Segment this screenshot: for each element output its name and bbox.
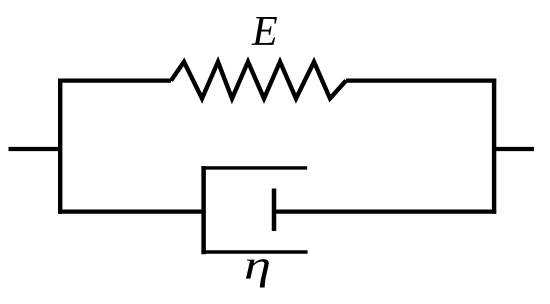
wire bottom-left <box>58 210 206 214</box>
spring E (zigzag) <box>171 62 346 99</box>
dashpot cylinder left wall <box>201 166 206 254</box>
dashpot cylinder bottom plate <box>202 250 308 253</box>
left terminal lead <box>9 147 61 151</box>
dashpot piston <box>272 189 277 232</box>
node right (vertical bus) <box>492 79 496 214</box>
wire top-left <box>58 78 171 82</box>
node left (vertical bus) <box>58 79 62 214</box>
right terminal lead <box>494 147 534 151</box>
svg-text:E: E <box>251 9 278 55</box>
dashpot piston rod / wire bottom-right <box>272 210 496 214</box>
svg-text:η: η <box>244 243 271 288</box>
wire top-right <box>346 78 496 82</box>
dashpot cylinder top plate <box>202 166 308 169</box>
